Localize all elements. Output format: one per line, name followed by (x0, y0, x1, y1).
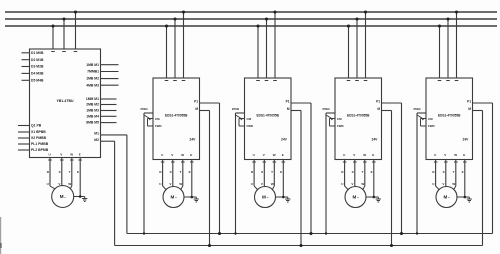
svg-text:250Ω: 250Ω (232, 107, 240, 111)
svg-text:2MB M2: 2MB M2 (86, 103, 99, 107)
svg-text:FWD: FWD (428, 124, 435, 128)
svg-text:W: W (454, 153, 457, 157)
svg-text:FWD: FWD (155, 124, 162, 128)
svg-text:D4 M3B: D4 M3B (31, 72, 44, 76)
svg-text:V: V (169, 182, 171, 186)
svg-text:E: E (79, 153, 81, 157)
svg-text:E: E (190, 153, 192, 157)
svg-text:V: V (353, 153, 355, 157)
svg-text:V: V (351, 182, 353, 186)
svg-text:W: W (179, 182, 182, 186)
svg-text:24V: 24V (190, 138, 197, 142)
svg-text:D1 M0B: D1 M0B (31, 51, 44, 55)
svg-text:EDS1-4T0055B: EDS1-4T0055B (347, 114, 370, 118)
svg-text:1MB M3: 1MB M3 (86, 109, 99, 113)
svg-text:CM: CM (155, 117, 160, 121)
svg-text:P1: P1 (467, 100, 471, 104)
svg-text:1MB M2: 1MB M2 (86, 77, 99, 81)
svg-text:U: U (343, 153, 345, 157)
svg-text:250Ω: 250Ω (140, 107, 148, 111)
svg-text:S: S (170, 170, 172, 174)
svg-text:Q1 PB: Q1 PB (31, 124, 42, 128)
svg-text:YB1-4TBU: YB1-4TBU (56, 99, 74, 103)
svg-text:V: V (261, 182, 263, 186)
svg-text:P1: P1 (194, 100, 198, 104)
svg-text:P1: P1 (286, 100, 290, 104)
svg-text:W: W (271, 182, 274, 186)
svg-text:7MMB1: 7MMB1 (87, 70, 99, 74)
svg-text:M: M (377, 107, 380, 111)
svg-text:S: S (352, 170, 354, 174)
svg-text:250Ω: 250Ω (413, 107, 421, 111)
svg-text:T: T (453, 170, 455, 174)
svg-text:U: U (251, 182, 253, 186)
svg-text:E: E (371, 170, 373, 174)
svg-text:M: M (262, 194, 266, 199)
svg-text:PL2 BPMB: PL2 BPMB (31, 148, 49, 152)
svg-text:T: T (362, 170, 364, 174)
svg-text:T: T (271, 170, 273, 174)
svg-text:4MB M3: 4MB M3 (86, 83, 99, 87)
svg-text:U: U (161, 153, 163, 157)
svg-text:T: T (69, 170, 71, 174)
svg-text:PL1 PMBB: PL1 PMBB (31, 142, 49, 146)
svg-text:CM: CM (247, 117, 252, 121)
svg-text:X1 BPBB: X1 BPBB (31, 130, 46, 134)
svg-text:~: ~ (266, 196, 268, 200)
svg-text:EDS1-4T0055B: EDS1-4T0055B (438, 114, 461, 118)
svg-text:~: ~ (448, 196, 450, 200)
svg-text:S: S (443, 170, 445, 174)
svg-text:M: M (171, 194, 175, 199)
svg-text:D5 M4B: D5 M4B (31, 79, 44, 83)
svg-text:1MM M1: 1MM M1 (86, 97, 99, 101)
svg-text:24V: 24V (372, 138, 379, 142)
svg-text:E: E (189, 170, 191, 174)
svg-text:S: S (59, 170, 61, 174)
svg-text:FWD: FWD (247, 124, 254, 128)
svg-text:24V: 24V (463, 138, 470, 142)
svg-text:1MB M1: 1MB M1 (86, 63, 99, 67)
svg-text:E: E (282, 153, 284, 157)
svg-text:E: E (463, 153, 465, 157)
svg-text:1MB M4: 1MB M4 (86, 114, 99, 118)
svg-text:M2: M2 (94, 138, 99, 142)
svg-text:E: E (372, 153, 374, 157)
svg-text:FWD: FWD (337, 124, 344, 128)
svg-text:W: W (363, 153, 366, 157)
svg-text:X2 PMBB: X2 PMBB (31, 136, 47, 140)
svg-text:E: E (462, 170, 464, 174)
svg-text:U: U (47, 182, 49, 186)
svg-text:U: U (341, 182, 343, 186)
svg-text:E: E (280, 170, 282, 174)
svg-text:~: ~ (357, 196, 359, 200)
svg-text:W: W (70, 153, 73, 157)
svg-text:U: U (49, 153, 51, 157)
svg-text:24V: 24V (281, 138, 288, 142)
svg-text:W: W (181, 153, 184, 157)
svg-text:V: V (444, 153, 446, 157)
svg-text:CM: CM (337, 117, 342, 121)
svg-text:D2 M1B: D2 M1B (31, 58, 44, 62)
svg-text:U: U (432, 182, 434, 186)
svg-text:D3 M2B: D3 M2B (31, 65, 44, 69)
svg-text:~: ~ (64, 196, 66, 200)
svg-text:8MB M5: 8MB M5 (86, 121, 99, 125)
svg-text:W: W (452, 182, 455, 186)
svg-text:S: S (261, 170, 263, 174)
svg-text:~: ~ (175, 196, 177, 200)
svg-text:M1: M1 (94, 131, 99, 135)
svg-text:E: E (77, 170, 79, 174)
svg-text:U: U (434, 153, 436, 157)
svg-text:V: V (263, 153, 265, 157)
svg-text:V: V (60, 153, 62, 157)
svg-text:M: M (468, 107, 471, 111)
svg-text:M: M (353, 194, 357, 199)
svg-text:M: M (287, 107, 290, 111)
svg-text:V: V (442, 182, 444, 186)
svg-text:P1: P1 (376, 100, 380, 104)
svg-text:U: U (253, 153, 255, 157)
svg-text:EDS1-4T0055B: EDS1-4T0055B (165, 114, 188, 118)
svg-text:W: W (273, 153, 276, 157)
svg-text:W: W (361, 182, 364, 186)
svg-text:M: M (60, 194, 64, 199)
svg-text:W: W (68, 182, 71, 186)
svg-text:CM: CM (428, 117, 433, 121)
svg-text:M: M (195, 107, 198, 111)
svg-text:250Ω: 250Ω (322, 107, 330, 111)
svg-text:T: T (180, 170, 182, 174)
svg-text:M: M (444, 194, 448, 199)
svg-text:EDS1-4T0055B: EDS1-4T0055B (256, 114, 279, 118)
svg-text:V: V (171, 153, 173, 157)
svg-text:U: U (159, 182, 161, 186)
